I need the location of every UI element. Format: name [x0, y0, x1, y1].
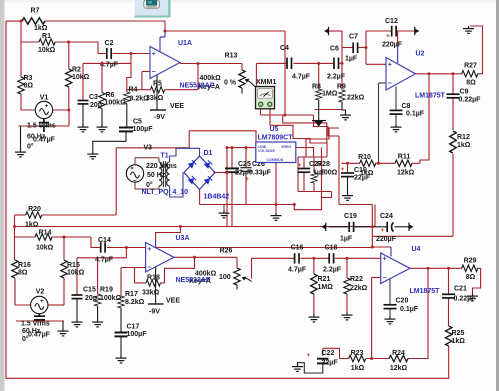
svg-text:R27: R27	[464, 63, 477, 70]
wire: riser C2 node down to C3/R6 row	[130, 54, 132, 64]
svg-text:V1: V1	[40, 95, 49, 102]
svg-text:22µF: 22µF	[354, 175, 371, 182]
wire: U4 power bus to pin	[372, 246, 391, 248]
svg-text:C21: C21	[454, 286, 467, 293]
resistor R26 potentiometer	[189, 248, 252, 290]
wire: XMM1 right terminal drop	[269, 109, 271, 126]
wire: R20 left lead	[15, 214, 26, 216]
resistor R19	[94, 287, 121, 307]
resistor R27	[462, 63, 478, 87]
resistor R3	[18, 75, 34, 94]
transformer T1	[142, 153, 189, 197]
ground G1 under C1	[15, 150, 26, 157]
svg-text:C22: C22	[322, 350, 335, 357]
wire C19-C24 mid lead	[354, 226, 387, 228]
ground under C10	[342, 193, 353, 200]
svg-text:0.33µF: 0.33µF	[249, 170, 272, 177]
top window border strip	[5, 0, 497, 3]
left window border strip	[0, 0, 5, 391]
wire: U3A feedback staircase	[165, 257, 195, 283]
svg-text:LM7809CT: LM7809CT	[258, 135, 294, 142]
wire: U1A output row	[180, 63, 242, 65]
wire: C4-C6 mid leads	[294, 62, 334, 64]
wire: C5 bottom to ground	[93, 132, 126, 152]
ground under C13 row	[58, 329, 69, 336]
svg-text:400kΩ: 400kΩ	[200, 75, 222, 82]
svg-text:R17: R17	[125, 291, 138, 298]
diode bridge D1	[184, 150, 229, 201]
svg-text:33kΩ: 33kΩ	[142, 290, 160, 297]
wire: VEE stem U3A	[155, 267, 157, 304]
capacitor C2	[100, 40, 119, 69]
svg-text:R25: R25	[452, 330, 465, 337]
capacitor C14	[95, 237, 114, 264]
wire: C25 bottom	[231, 172, 233, 226]
wire: C22 top lead	[322, 348, 324, 356]
wire: R16 bottom to V2	[15, 278, 31, 305]
wire: R1 row right	[55, 41, 98, 43]
svg-text:4.7µF: 4.7µF	[288, 267, 307, 274]
resistor R16	[12, 260, 31, 278]
svg-text:R20: R20	[28, 206, 41, 213]
svg-text:LM1875T: LM1875T	[415, 93, 446, 100]
wire: U2 top pin feed	[397, 31, 399, 44]
wire: bridge output riser	[214, 172, 228, 174]
svg-text:1µF: 1µF	[345, 56, 358, 63]
wire: long vertical x285	[284, 31, 286, 115]
right window border strip	[496, 0, 499, 391]
VEE rail symbol U3A	[148, 298, 180, 316]
wire: R10-R11 mid lead	[376, 162, 396, 164]
svg-text:R18: R18	[147, 275, 160, 282]
wire: drop x372.3 to U4 power	[371, 205, 373, 248]
wire: C7 right lead	[359, 47, 367, 49]
svg-text:8Ω: 8Ω	[24, 83, 34, 90]
wire: R13 top lead	[241, 64, 243, 71]
svg-text:22µF: 22µF	[322, 360, 339, 367]
wire: R22 bottom lead	[346, 294, 348, 313]
wire: R17 riser	[120, 268, 122, 297]
svg-text:R6: R6	[106, 92, 115, 99]
svg-text:R24: R24	[392, 350, 405, 357]
wire: U3A power jog	[156, 227, 181, 241]
wire: U5 output lead	[296, 148, 314, 158]
wire: C26 bottom	[245, 172, 247, 205]
svg-text:+: +	[381, 227, 385, 234]
wire: R14 left lead	[15, 236, 36, 238]
AC source V3	[126, 145, 177, 190]
svg-text:220µF: 220µF	[382, 42, 403, 49]
off-page connector arrow after C24	[409, 223, 414, 231]
wire: strand x306	[305, 139, 307, 157]
AC source V1	[27, 95, 56, 151]
wire: C13 row y321	[16, 320, 64, 322]
wire: C21 to R25	[448, 298, 450, 326]
wire: C2 right lead to U1A + input	[113, 53, 151, 55]
wire: C20 stem upper	[389, 279, 391, 305]
wire: R12 bottom long drop	[452, 154, 454, 236]
svg-text:8.2kΩ: 8.2kΩ	[125, 299, 145, 306]
wire: C4 left lead	[256, 62, 286, 64]
svg-text:D1: D1	[204, 150, 213, 157]
wire: C2 left lead	[98, 53, 106, 55]
wire: y115 run	[261, 114, 314, 116]
svg-text:VOLTAGE: VOLTAGE	[258, 149, 275, 153]
ground under C17	[116, 356, 127, 363]
resistor R8	[312, 84, 338, 101]
svg-text:R9: R9	[337, 84, 346, 91]
svg-text:XMM1: XMM1	[256, 79, 276, 86]
wire: C16 left lead	[252, 257, 295, 259]
wire: staircase x313.5	[314, 115, 340, 136]
svg-text:R26: R26	[220, 248, 233, 255]
svg-text:C9: C9	[460, 89, 469, 96]
wire: to U1A - input	[142, 71, 150, 73]
svg-text:R8: R8	[312, 84, 321, 91]
wire: op-amp U1A power bus y31	[165, 30, 285, 32]
wire: R27 right corner up to ground	[470, 26, 483, 74]
wire: C8 stem lower	[395, 114, 397, 124]
svg-text:V2: V2	[36, 289, 45, 296]
wire: R18 left riser	[134, 268, 136, 284]
resistor R23	[349, 350, 366, 372]
wire: corner down to C2	[97, 42, 99, 54]
resistor R9	[337, 84, 365, 103]
svg-text:-9V: -9V	[149, 309, 160, 316]
wire: C9 riser	[452, 74, 454, 94]
wire: R4 bottom to C5	[126, 104, 128, 128]
svg-text:1.5 Vrms: 1.5 Vrms	[27, 123, 56, 130]
wire: C10 bottom stem	[347, 177, 349, 193]
wire: C20 stem lower	[389, 309, 391, 317]
resistor R13 potentiometer	[198, 53, 256, 94]
svg-text:0°: 0°	[22, 335, 29, 343]
wire: U2 - input lead	[379, 82, 387, 84]
wire: C1 ground stem	[20, 126, 22, 150]
wire: input arrow to C7	[329, 30, 343, 32]
svg-text:2.2µF: 2.2µF	[327, 74, 346, 81]
wire: R14 right lead	[52, 236, 91, 238]
wire: R7 right to corner	[45, 20, 165, 22]
svg-text:C20: C20	[396, 298, 409, 305]
capacitor C15	[72, 287, 98, 303]
svg-text:0.1µF: 0.1µF	[406, 111, 425, 118]
wire: VEE stem U1A	[156, 75, 158, 111]
wire: C6 right lead	[340, 62, 343, 64]
svg-text:C12: C12	[385, 18, 398, 25]
svg-text:T1: T1	[161, 153, 169, 160]
svg-text:C5: C5	[133, 119, 142, 126]
wire: riser x227 long	[226, 148, 228, 227]
svg-text:1MΩ: 1MΩ	[318, 284, 334, 291]
wire: R17 bottom to C17	[120, 308, 122, 332]
wire: XMM1 left terminal drop	[260, 109, 262, 115]
svg-text:1kΩ: 1kΩ	[457, 142, 471, 149]
ground under R21	[308, 315, 319, 322]
resistor R17	[118, 291, 145, 308]
svg-text:R21: R21	[318, 276, 331, 283]
svg-text:R19: R19	[100, 287, 113, 294]
wire: jog bus y204.5-y209.7	[294, 192, 331, 210]
wire: C21 riser	[448, 268, 450, 294]
multimeter XMM1	[256, 79, 277, 109]
wire: long drop x339	[338, 136, 340, 205]
resistor R25	[446, 326, 466, 346]
wire: C4 row corner down to XMM1	[255, 63, 257, 87]
svg-text:10kΩ: 10kΩ	[67, 270, 85, 277]
svg-text:1.5 Vrms: 1.5 Vrms	[21, 321, 50, 328]
resistor R7	[22, 8, 48, 33]
wire: C22 top staircase	[339, 348, 341, 358]
ground under R29 network	[467, 294, 478, 301]
wire: R28 bottom lead	[313, 183, 315, 192]
svg-text:-9V: -9V	[154, 114, 165, 121]
capacitor C19	[340, 213, 357, 243]
wire: staircase x282.7	[283, 115, 327, 143]
wire: C7 drop / R9 column	[341, 31, 343, 90]
svg-text:22kΩ: 22kΩ	[350, 285, 368, 292]
wire: U3A power bus y226.5	[15, 226, 376, 228]
svg-text:0 %: 0 %	[224, 80, 237, 87]
wire: R20 right to riser	[42, 214, 116, 216]
wire: riser x375	[374, 205, 376, 227]
svg-text:R12: R12	[457, 134, 470, 141]
svg-text:C17: C17	[127, 324, 140, 331]
wire V3 bottom lead	[135, 182, 159, 189]
wire: C12 drop to U2 + input	[365, 31, 367, 64]
svg-text:COMMON: COMMON	[267, 158, 284, 162]
svg-text:C14: C14	[98, 237, 111, 244]
capacitor C13	[28, 307, 51, 339]
svg-text:LM1875T: LM1875T	[410, 288, 441, 295]
svg-text:0.1µF: 0.1µF	[400, 306, 419, 313]
wire: feedback riser x198	[197, 64, 199, 90]
capacitor C27	[298, 161, 326, 177]
svg-text:R28: R28	[317, 161, 330, 168]
wire: R18 left lead	[135, 282, 147, 284]
svg-text:100kΩ: 100kΩ	[105, 100, 127, 107]
svg-text:+: +	[298, 162, 302, 169]
wire: rung y191.5	[298, 191, 332, 193]
svg-text:+: +	[307, 352, 311, 359]
svg-text:100: 100	[219, 274, 231, 281]
wire: ground bus y204.5	[200, 204, 295, 206]
svg-text:8Ω: 8Ω	[466, 80, 476, 87]
wire: R23-R24 mid lead	[366, 358, 389, 360]
svg-text:R16: R16	[18, 262, 31, 269]
wire: R5 right lead to feedback riser	[165, 89, 199, 91]
ground under C8	[391, 125, 402, 132]
wire: U2 - input feedback drop	[378, 83, 380, 163]
voltage regulator U5 LM7809CT	[256, 126, 296, 163]
svg-text:U2: U2	[416, 51, 425, 58]
capacitor C7	[345, 34, 358, 63]
resistor R20	[25, 206, 42, 229]
svg-text:8Ω: 8Ω	[18, 270, 28, 277]
off-page connector arrow into C7	[324, 27, 329, 35]
resistor R10	[358, 154, 376, 177]
wire: U2 feedback drop x429	[420, 74, 429, 164]
svg-text:U4: U4	[412, 246, 421, 253]
svg-text:R14: R14	[39, 230, 52, 237]
wire: x298 strand	[297, 157, 299, 192]
svg-text:20p: 20p	[85, 295, 97, 302]
wire: R10 left lead	[342, 162, 361, 164]
capacitor C26	[241, 161, 272, 183]
ground for C22	[292, 364, 303, 371]
svg-text:60 Hz: 60 Hz	[22, 328, 41, 335]
wire: C15 bottom stem	[76, 299, 78, 320]
wire: U5 input lead	[226, 147, 256, 149]
svg-text:R7: R7	[31, 8, 40, 15]
svg-text:C7: C7	[349, 34, 358, 41]
svg-text:20p: 20p	[90, 102, 102, 109]
wire: lower-left riser x14.5	[14, 215, 16, 260]
capacitor C18	[323, 245, 342, 274]
wire: C3/R6 row y63.4	[83, 62, 131, 64]
wire: U3A - input row to R17	[121, 267, 146, 269]
wire: C8 stem upper	[395, 87, 397, 111]
svg-text:R15: R15	[67, 262, 80, 269]
svg-text:R29: R29	[464, 258, 477, 265]
toolbar icon fragment at top	[135, 0, 171, 18]
svg-text:C4: C4	[280, 45, 289, 52]
resistor R29	[462, 258, 478, 282]
svg-text:V3: V3	[144, 145, 153, 152]
wire: R11 right lead	[412, 162, 420, 164]
op-amp U1A	[150, 31, 215, 90]
wire: R28 top lead	[313, 157, 315, 173]
wire: R29 right corner to ground	[473, 268, 481, 293]
op-amp U4	[381, 246, 440, 295]
ground under C15	[72, 320, 83, 327]
wire: C27 top lead	[303, 157, 305, 168]
svg-text:C6: C6	[330, 46, 339, 53]
svg-text:VEE: VEE	[166, 298, 180, 305]
wire: R3 bottom to V1 left	[21, 94, 35, 110]
svg-text:R10: R10	[358, 154, 371, 161]
svg-text:VREG: VREG	[281, 145, 291, 149]
wire: x321.5 strand	[321, 148, 323, 198]
capacitor C16	[288, 245, 307, 274]
svg-text:220µF: 220µF	[376, 236, 397, 243]
resistor R1	[38, 33, 56, 54]
wire: C9 to R12	[452, 98, 454, 130]
wire: C22 top jog	[323, 347, 340, 349]
wire: crossing run y109.5	[315, 109, 343, 111]
svg-text:0°: 0°	[27, 143, 34, 151]
wire T1 secondary top staircase	[170, 148, 200, 162]
svg-text:C16: C16	[291, 245, 304, 252]
wire: R23 left lead	[340, 358, 349, 360]
svg-text:60 Hz: 60 Hz	[27, 134, 46, 141]
wire: R18 right lead	[161, 282, 165, 284]
wire: C3 top lead	[82, 63, 84, 100]
ground on bus x224	[219, 211, 230, 218]
svg-text:R23: R23	[351, 350, 364, 357]
resistor R6	[99, 92, 126, 109]
wire: R22 top lead	[346, 258, 348, 278]
wire: U2 output row	[416, 73, 463, 75]
wire: R5 left lead	[142, 89, 151, 91]
resistor R22	[344, 276, 368, 294]
svg-text:C10: C10	[354, 167, 367, 174]
resistor R28	[311, 161, 338, 183]
wire: riser x21 between R7 and R1 rows	[20, 21, 22, 42]
ground under C5	[87, 152, 98, 159]
wire: C22 bottom staircase to ground	[298, 363, 323, 373]
ground under R6	[97, 125, 108, 132]
wire: riser to C15/R19 row	[125, 248, 127, 258]
wire: V3 row	[116, 147, 189, 149]
resistor R14	[35, 230, 54, 252]
wire: y236.3 run to x372	[372, 235, 453, 237]
capacitor C6	[327, 46, 346, 81]
wire: V2 right lead	[48, 304, 64, 306]
wire: C7 left lead	[342, 47, 353, 49]
svg-text:U1A: U1A	[178, 40, 192, 47]
wire: R2 top lead	[68, 42, 70, 69]
wire: R6 top lead	[101, 63, 103, 92]
capacitor C4	[280, 45, 311, 81]
wire: R26 top lead	[236, 257, 238, 268]
wire: C12 right lead to arrow	[396, 30, 414, 32]
wire: drop to op-amp power bus	[164, 21, 166, 31]
svg-text:0.22µF: 0.22µF	[459, 97, 482, 104]
svg-text:4.7µF: 4.7µF	[95, 257, 114, 264]
wire: R8 top lead	[318, 63, 320, 89]
ground at R27 top right	[463, 26, 474, 33]
svg-text:2.2µF: 2.2µF	[323, 267, 342, 274]
resistor R12	[450, 131, 471, 153]
ground arrow under R8	[312, 121, 326, 126]
wire: V3 net from R20 riser	[115, 148, 117, 215]
svg-text:R13: R13	[225, 53, 238, 60]
wire: y157 rail C27/R28	[298, 156, 327, 158]
svg-text:C24: C24	[380, 213, 393, 220]
svg-text:100µF: 100µF	[127, 331, 148, 338]
wire C19 left lead	[329, 226, 350, 228]
resistor R4	[124, 87, 150, 104]
wire: R9 bottom jog to ground	[342, 102, 346, 113]
capacitor C25	[225, 161, 252, 177]
wire: C15/R19 row y258	[77, 257, 126, 259]
svg-text:0°: 0°	[146, 181, 153, 189]
wire: C17 bottom stem	[120, 337, 122, 356]
wire: R15 bottom lead	[63, 278, 65, 305]
svg-text:1kΩ: 1kΩ	[351, 365, 365, 372]
resistor R21	[311, 274, 334, 294]
ground under R9	[340, 113, 351, 120]
svg-text:R2: R2	[72, 67, 81, 74]
svg-text:+: +	[386, 33, 390, 40]
svg-text:8Ω: 8Ω	[466, 274, 476, 281]
ground under C3	[78, 125, 89, 132]
wire: R2 bottom lead	[68, 87, 70, 110]
svg-text:12kΩ: 12kΩ	[397, 170, 415, 177]
svg-text:VEE: VEE	[170, 103, 184, 110]
svg-text:+: +	[245, 176, 249, 183]
svg-text:C8: C8	[402, 103, 411, 110]
wire: R8 bottom stem	[318, 100, 320, 121]
wire: R6 bottom stem	[101, 109, 103, 125]
svg-text:NLT_PQ_4_10: NLT_PQ_4_10	[142, 189, 189, 196]
wire: C25 column x232	[231, 148, 233, 169]
capacitor C5	[119, 119, 153, 133]
wire: U2 + input lead	[366, 63, 386, 65]
svg-text:NE5532AP: NE5532AP	[176, 277, 211, 284]
wire: U4 feedback long drop	[371, 278, 373, 359]
